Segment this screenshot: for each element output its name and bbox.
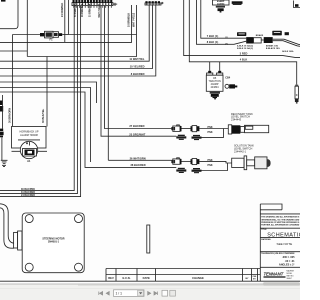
mounting hole BL [25, 263, 33, 271]
component tick inside top-left box [1, 0, 6, 2]
svg-text:8 BLK (1): 8 BLK (1) [207, 40, 219, 44]
plug CB-A [207, 62, 213, 75]
wire row1 blobs to switch [202, 129, 224, 138]
connector upper brake jumper [237, 32, 246, 36]
title block border [259, 204, 261, 281]
wire from vertical x27 corner down to alarm box [26, 0, 28, 57]
wire riser 4 BLK [189, 0, 296, 85]
switch S-recovery [228, 125, 268, 134]
circuit breaker box top (243804) [213, 0, 230, 6]
svg-text:MODEL: MODEL [287, 273, 293, 275]
label SOLUTION TANK LEVEL SWITCH 2344442-1 [234, 145, 254, 154]
wire 25 ORG/WHT [107, 6, 109, 161]
solenoid right edge [295, 85, 299, 104]
ground [1, 160, 8, 166]
svg-text:ALARM 748208: ALARM 748208 [20, 134, 38, 137]
svg-text:.000 ± .005: .000 ± .005 [282, 256, 295, 259]
connector brake main [246, 37, 300, 46]
svg-text:24 ORN/BLK: 24 ORN/BLK [61, 3, 64, 17]
icon page view [162, 290, 168, 296]
wire 12 jogged (top left long wire) [0, 5, 132, 42]
battery box top-right corner [294, 1, 301, 8]
mounting hole TL [25, 215, 33, 223]
wire to horn [2, 95, 4, 129]
svg-text:C: C [296, 93, 298, 97]
mounting hole BR [75, 263, 83, 271]
legal notice text [261, 216, 300, 227]
svg-text:24 BLK 18GA: 24 BLK 18GA [282, 50, 294, 53]
nav first-page button [99, 292, 103, 296]
svg-text:WHT 741012: WHT 741012 [98, 3, 101, 17]
svg-text:PNK: PNK [208, 159, 213, 162]
svg-text:27 BLK/RED: 27 BLK/RED [129, 124, 144, 128]
svg-text:243804: 243804 [217, 3, 225, 6]
svg-text:PNK: PNK [208, 131, 213, 134]
scrollbar track [78, 284, 300, 285]
svg-text:TOLERANCES (UNLESS OTHERWISE: TOLERANCES (UNLESS OTHERWISE [261, 252, 295, 255]
nav last button [154, 292, 158, 296]
svg-text:10 BRN/BLK: 10 BRN/BLK [89, 3, 91, 17]
viewer toolbar [0, 282, 300, 300]
label RECOVERY TANK LEVEL SWITCH 2344443 [231, 112, 253, 122]
connector J2 (top) [145, 1, 164, 5]
svg-text:1 / 1: 1 / 1 [116, 292, 123, 296]
svg-text:CB4: CB4 [225, 76, 231, 79]
alarm box [12, 127, 47, 149]
mounting hole TR [75, 215, 83, 223]
circuit breaker CB4 [225, 84, 237, 88]
connector row2 mating blobs [176, 168, 201, 173]
page dropdown button [138, 290, 144, 296]
svg-text:18 BRN/BLK: 18 BRN/BLK [82, 3, 84, 17]
svg-text:SCHEMATIC: SCHEMATIC [267, 233, 300, 239]
svg-text:ANGLES ± 2°: ANGLES ± 2° [279, 263, 295, 266]
svg-text:11 WHT/YEL: 11 WHT/YEL [129, 57, 145, 61]
circuit breaker box CB TRACTION 40AMP 243804 [206, 75, 223, 91]
steering motor box [22, 213, 84, 273]
connector row2 right half [191, 159, 200, 165]
svg-text:(2): (2) [225, 44, 228, 46]
svg-text:WHT 747212: WHT 747212 [132, 12, 135, 27]
svg-text:BY: BY [245, 278, 249, 280]
wire 30 BLK/PNK (J1 drop to bottom left) [0, 6, 74, 191]
revision table [106, 269, 260, 282]
svg-text:REV: REV [108, 276, 114, 280]
svg-text:TITLE: TITLE [261, 229, 267, 231]
wire horn to ground [1, 138, 3, 161]
wire stub y87 [0, 88, 91, 163]
wire 27 BLK/RED [105, 6, 172, 129]
page input box [114, 290, 145, 297]
svg-text:MATERIAL: MATERIAL [261, 238, 271, 241]
wire F1 to riser [62, 34, 68, 36]
label machine info [287, 270, 295, 281]
svg-text:INTERNATIONAL, NO. THE DRAWING: INTERNATIONAL, NO. THE DRAWING AND [261, 218, 300, 221]
svg-text:36 BLK/YEL: 36 BLK/YEL [42, 108, 45, 123]
wire row1 to recovery switch [199, 128, 228, 130]
svg-text:28 BLK/RED: 28 BLK/RED [130, 163, 145, 167]
wire 28 BLK/RED [0, 92, 176, 167]
svg-text:26 WHT/ORN: 26 WHT/ORN [130, 156, 146, 160]
svg-text:50 BRN/ORN: 50 BRN/ORN [75, 3, 77, 17]
svg-text:B.BLK 18 GA (2): B.BLK 18 GA (2) [237, 47, 253, 50]
svg-text:10 BRN/BLK: 10 BRN/BLK [128, 13, 131, 27]
horn (left edge) [0, 129, 4, 138]
svg-text:SEE NOTE: SEE NOTE [277, 242, 293, 246]
connector J1 (main harness, top) [72, 0, 117, 8]
svg-text:A1: A1 [27, 159, 31, 163]
wire stub y82 [0, 82, 97, 103]
plug under top breaker box [216, 6, 225, 13]
wire 31 BLK/RED (J1 drop to bottom left) [0, 6, 77, 194]
switch S-solution [232, 156, 271, 170]
svg-text:DATE: DATE [143, 276, 150, 280]
svg-text:10 YEL/RED: 10 YEL/RED [130, 64, 145, 68]
svg-text:36 BRN/ORN: 36 BRN/ORN [8, 108, 11, 123]
svg-text:2344442-1: 2344442-1 [234, 150, 247, 153]
svg-text:PERMISSION OF WRITTEN EXPRESSE: PERMISSION OF WRITTEN EXPRESSED IS [261, 222, 300, 224]
wire 26 WHT/ORN [108, 159, 171, 161]
wire 8 BLK (1) [197, 0, 247, 44]
svg-text:25 ORG/WHT: 25 ORG/WHT [129, 133, 146, 137]
title block separators [260, 228, 300, 267]
cable to steering motor (outer) [0, 204, 16, 244]
svg-text:PNK: PNK [208, 164, 213, 167]
svg-text:(1): (1) [225, 37, 228, 39]
connector row2 left half [171, 158, 181, 164]
svg-text:FURTHER, ALL INFORMATION CONTA: FURTHER, ALL INFORMATION CONTAINED [261, 224, 300, 227]
horn upper part (left edge) [0, 101, 3, 112]
icon layout [170, 290, 176, 296]
wire 8 BLK/RED [0, 5, 156, 76]
steering motor bracket [14, 231, 22, 250]
svg-text:2344443: 2344443 [231, 118, 242, 122]
svg-text:2M4091-1: 2M4091-1 [48, 241, 60, 244]
box top-left (partial module outline) [0, 0, 18, 29]
connector row1 mating blobs [176, 135, 201, 140]
battery terminal [295, 4, 299, 7]
nav next button [148, 292, 151, 296]
svg-text:SHEET: SHEET [287, 278, 292, 280]
svg-text:24 BLK/RED: 24 BLK/RED [21, 194, 35, 197]
svg-text:THIS DRAWING AND ALL INFORMATI: THIS DRAWING AND ALL INFORMATION IS [261, 216, 300, 219]
wire 7 BLK (1) [201, 0, 246, 38]
wire row2 to solution switch [199, 161, 231, 163]
wire row1 between [182, 128, 191, 130]
svg-text:E.C.N.: E.C.N. [123, 276, 131, 280]
fuse F1 [40, 31, 62, 38]
connector row1 left half [171, 125, 181, 131]
plug CB-B [217, 62, 223, 75]
wire row2 between [182, 160, 191, 162]
plug under CB TRACTION [210, 92, 220, 100]
wire 11 WHT/YEL [0, 5, 149, 61]
svg-text:TENNANT: TENNANT [264, 271, 284, 276]
title block top cell [260, 204, 300, 214]
wire from left corner to fuse F1 [13, 34, 41, 36]
connector upper right [272, 31, 289, 36]
bracket line inside alarm box [18, 139, 40, 141]
wire drop from F1 corner to alarm box [12, 35, 14, 127]
connector row1 right half [191, 126, 200, 132]
svg-text:PNK: PNK [208, 126, 213, 129]
svg-text:7 BLK (1): 7 BLK (1) [207, 34, 219, 38]
cable to steering motor (inner) [0, 208, 14, 248]
wire 24 BLK/RED (J1 drop to bottom left) [0, 6, 81, 197]
svg-text:243804: 243804 [211, 86, 220, 89]
svg-text:B.BLACK 18G: B.BLACK 18G [266, 47, 280, 50]
svg-text:8 BLK/RED: 8 BLK/RED [131, 72, 145, 76]
svg-text:4 BLK: 4 BLK [240, 58, 248, 62]
page bottom border [0, 280, 300, 282]
wire row2 blobs to switch [202, 163, 228, 171]
bracket right of motor [147, 225, 150, 253]
wire drop right of riser [64, 0, 66, 42]
wire 10 YEL/RED [0, 5, 153, 69]
wire riser 3 RED [184, 0, 300, 57]
wire riser 24 ORN/BLK [68, 0, 70, 35]
logo TENNANT [264, 271, 286, 278]
svg-text:CHANGE: CHANGE [192, 276, 204, 280]
terminal strip top [232, 1, 243, 5]
svg-text:BRAKE: BRAKE [256, 34, 264, 37]
nav prev button [106, 292, 109, 296]
scrollbar thumb [263, 282, 300, 285]
wire y34.5 extension [69, 34, 137, 36]
alarm A1 [12, 141, 48, 158]
svg-text:3 RED: 3 RED [240, 52, 248, 56]
label HORN/BACK UP ALARM 748208 [19, 131, 38, 137]
